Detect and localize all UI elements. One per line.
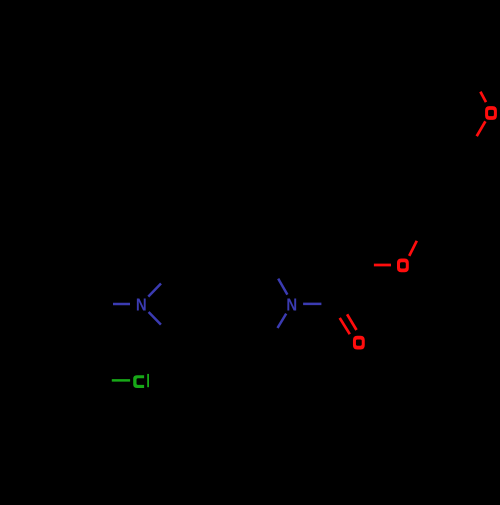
- wire: ether O bond stub W: [374, 264, 391, 267]
- node O1: carbonyl oxygen label: [353, 336, 365, 350]
- node O2: ether oxygen label: [397, 259, 409, 273]
- wire: N2 ring bond stub NW: [278, 279, 287, 295]
- svg-text:N: N: [136, 295, 147, 314]
- wire: N1 ring bond stub SE: [149, 312, 161, 325]
- wire: N1 methyl bond stub: [113, 303, 130, 306]
- wire: carbonyl C=O double bond line 2: [347, 314, 356, 330]
- wire: N2 ring bond stub SW: [278, 314, 287, 328]
- wire: carbonyl C=O double bond line 1: [340, 318, 350, 334]
- wire: methoxy O bond stub SW: [477, 121, 486, 136]
- svg-text:N: N: [286, 295, 297, 314]
- wire: methoxy O bond stub NW: [480, 92, 486, 102]
- wire: ether O bond stub NE: [409, 241, 417, 256]
- node Cl: chlorine label: [133, 375, 144, 388]
- wire: N2 amide bond stub E: [303, 303, 321, 306]
- node O3: methoxy oxygen label: [485, 106, 497, 120]
- wire: Cl bond stub W: [112, 379, 130, 382]
- wire: N1 ring bond stub NE: [148, 284, 161, 297]
